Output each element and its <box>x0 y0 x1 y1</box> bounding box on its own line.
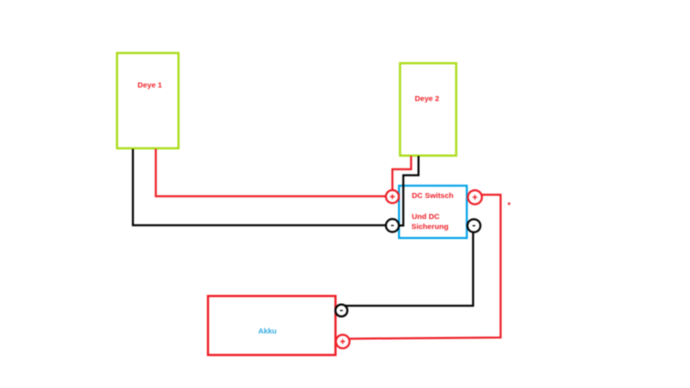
wire: Deye 2 plus (red) down-left into left plus terminal <box>392 156 411 190</box>
plus sign right <box>473 195 478 200</box>
inverter box Deye 1 <box>117 53 179 148</box>
terminal circle: Akku minus <box>335 305 347 317</box>
svg-text:Und DC: Und DC <box>412 212 440 221</box>
terminal circle: left minus <box>386 219 399 232</box>
wire: Deye 1 minus (black) to left minus terminal <box>133 149 386 225</box>
wire: right minus terminal to Akku minus (black) <box>345 232 474 306</box>
inverter box Deye 2 <box>400 63 456 155</box>
plus sign left <box>390 194 395 199</box>
plus sign Akku <box>340 339 345 344</box>
terminal circle: Akku plus <box>336 335 350 349</box>
DC switch / fuse box U1 <box>399 186 467 238</box>
minus sign Akku <box>340 310 343 312</box>
svg-text:Sicherung: Sicherung <box>411 222 448 231</box>
terminal circle: right minus <box>467 219 480 232</box>
svg-text:Akku: Akku <box>258 326 277 335</box>
wire: Deye 2 minus (black) down-left into left minus terminal <box>399 156 419 226</box>
wire: right plus terminal to Akku plus (red) <box>350 195 501 339</box>
stray red dot <box>508 203 510 205</box>
svg-text:DC Switsch: DC Switsch <box>412 191 454 200</box>
battery box Akku <box>208 296 336 355</box>
minus sign left <box>391 225 394 227</box>
minus sign right <box>473 225 476 227</box>
terminal circle: right plus <box>468 190 482 204</box>
terminal circle: left plus <box>386 190 399 203</box>
svg-text:Deye 2: Deye 2 <box>415 94 440 103</box>
wire: Deye 1 plus (red) to left plus terminal <box>156 149 386 196</box>
svg-text:Deye 1: Deye 1 <box>138 81 163 90</box>
